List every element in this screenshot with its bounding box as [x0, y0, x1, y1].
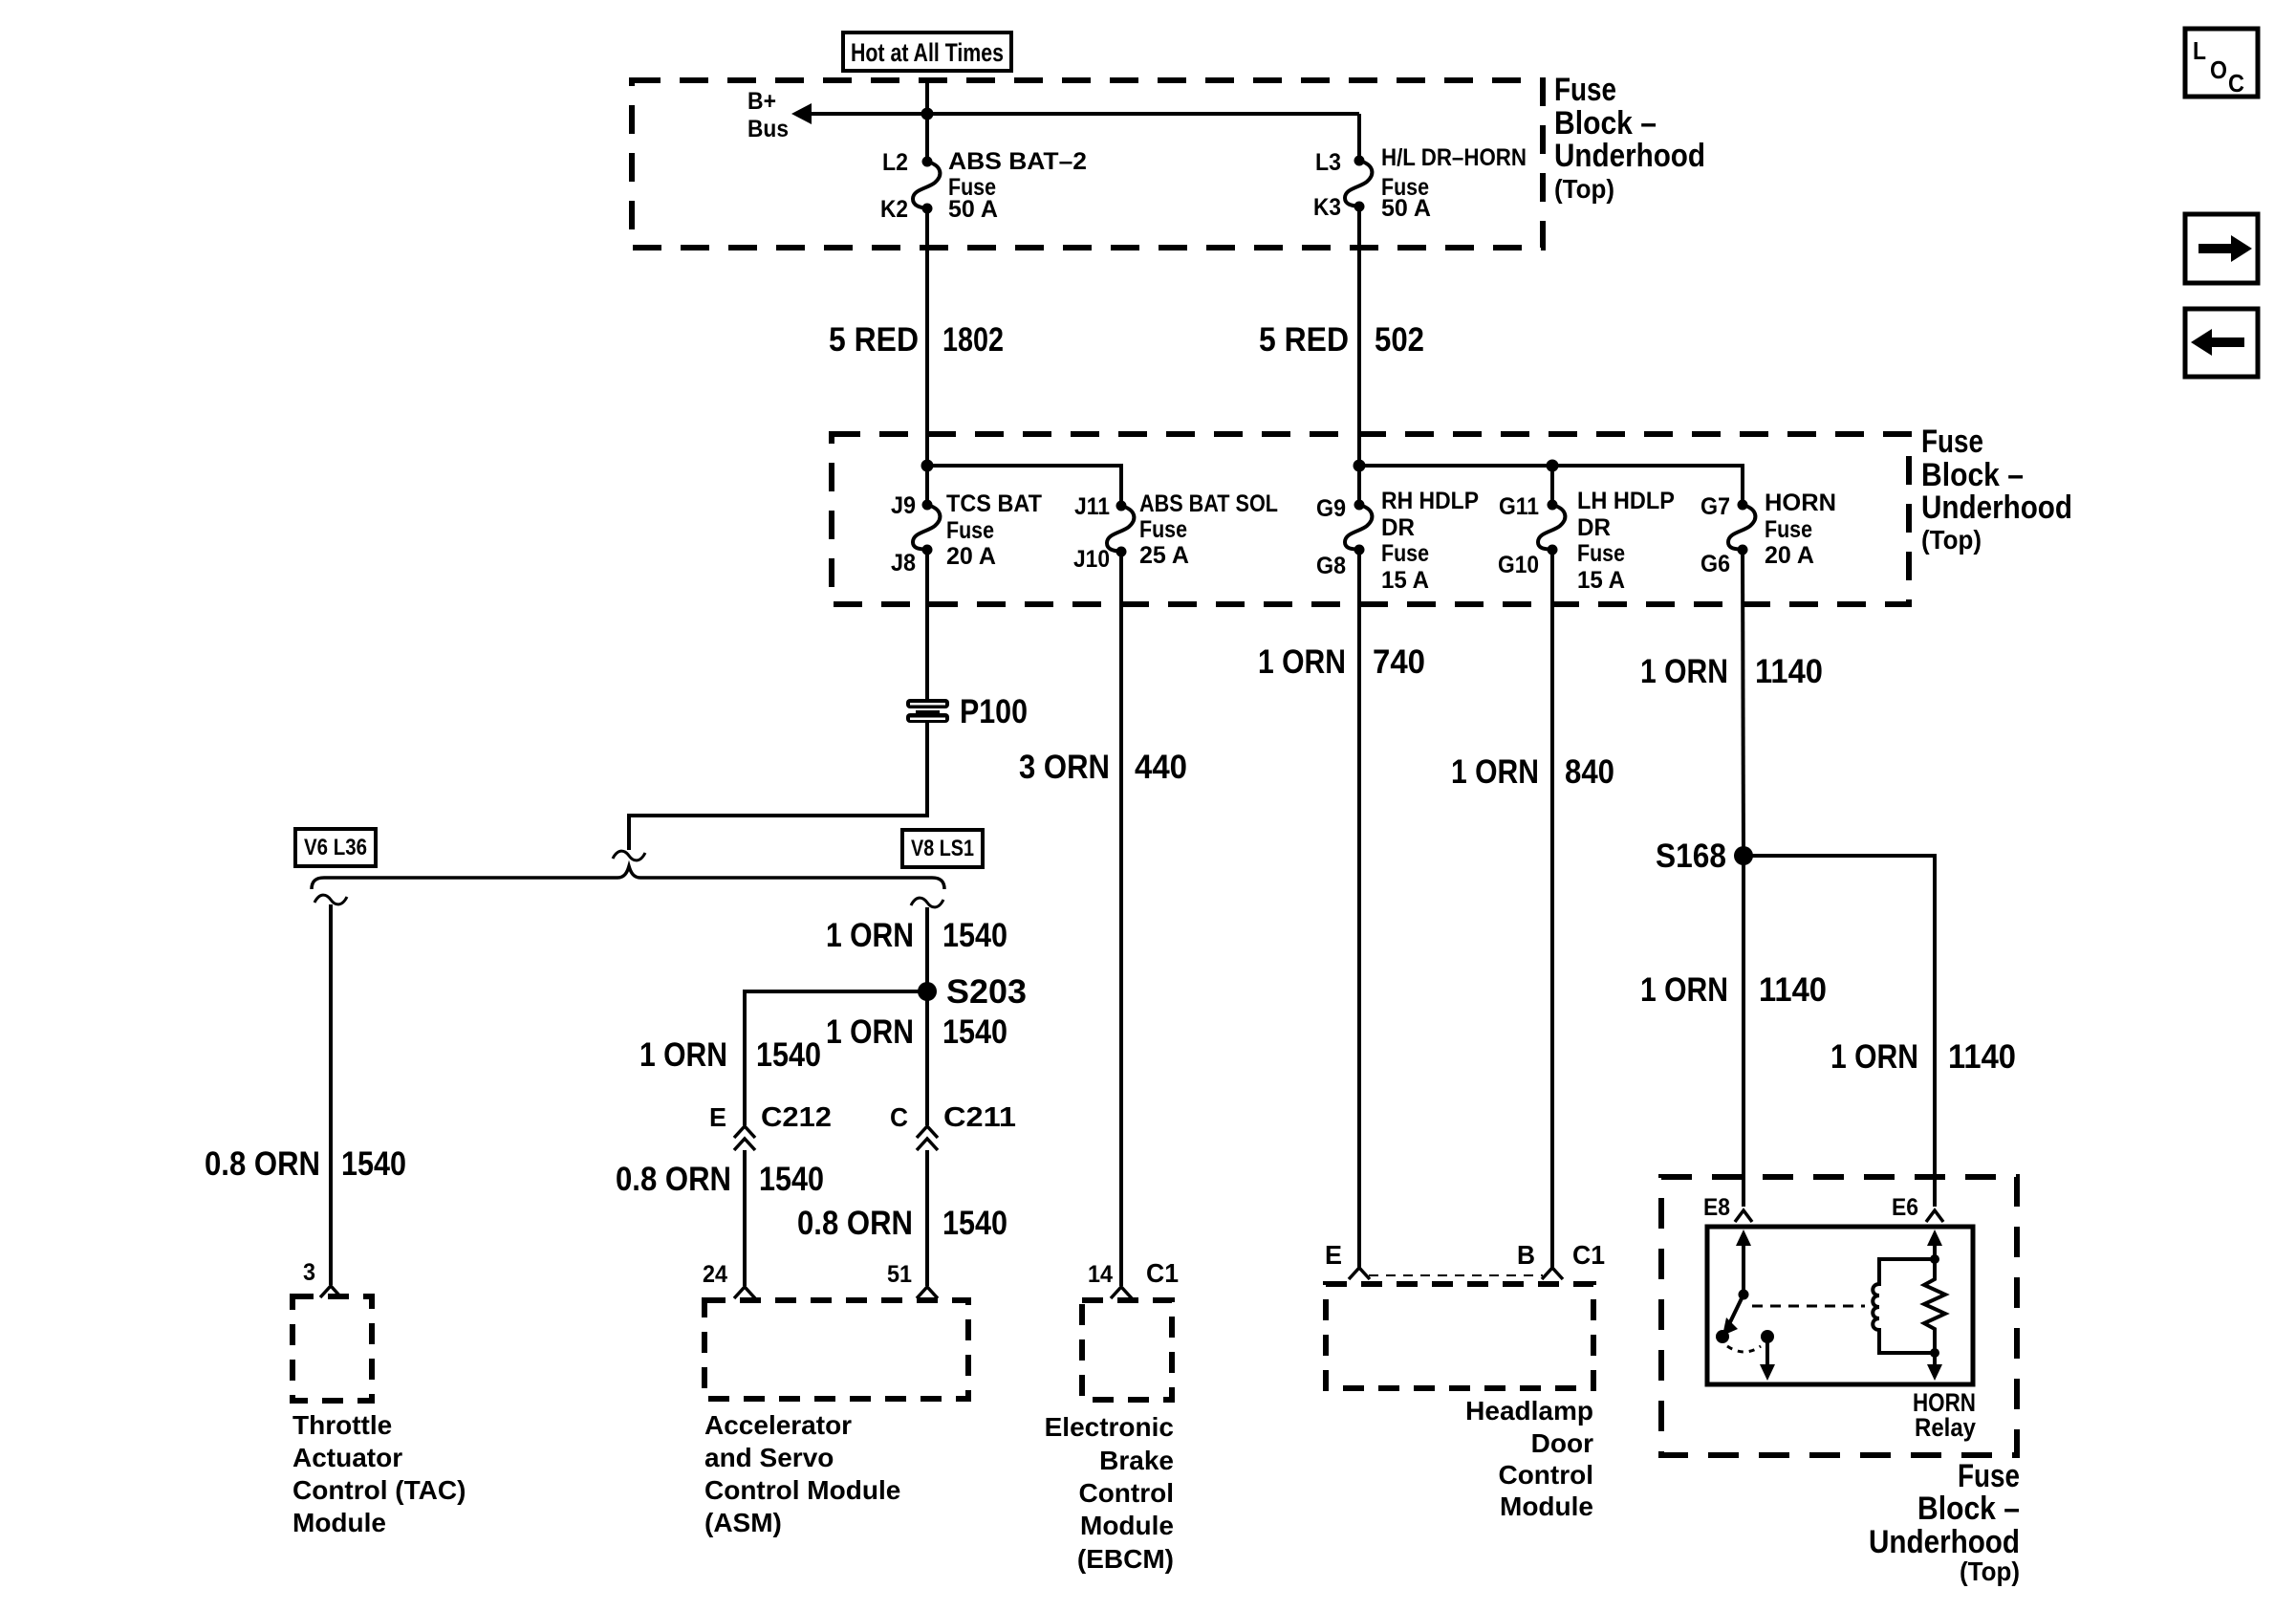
- svg-text:Module: Module: [292, 1508, 386, 1537]
- relay switch pivot: [1739, 1290, 1749, 1300]
- svg-text:24: 24: [703, 1261, 727, 1288]
- svg-text:Relay: Relay: [1915, 1413, 1976, 1442]
- svg-text:Headlamp: Headlamp: [1465, 1396, 1593, 1426]
- wire: C212 to ASM pin 24: [743, 1150, 747, 1286]
- relay contact left: [1716, 1330, 1729, 1343]
- svg-text:0.8 ORN: 0.8 ORN: [205, 1145, 320, 1183]
- svg-text:DR: DR: [1381, 514, 1415, 541]
- svg-text:1 ORN: 1 ORN: [826, 1013, 914, 1051]
- svg-text:Control: Control: [1078, 1478, 1174, 1508]
- fuse ABS BAT-2 50A (L2-K2): [913, 162, 940, 208]
- svg-text:1540: 1540: [341, 1145, 406, 1183]
- wire break at options stub: [613, 851, 645, 860]
- wire: C211 to ASM pin 51: [925, 1150, 929, 1286]
- svg-text:L: L: [2193, 36, 2206, 65]
- svg-text:Control (TAC): Control (TAC): [292, 1475, 466, 1505]
- svg-text:1140: 1140: [1755, 653, 1823, 690]
- svg-text:1 ORN: 1 ORN: [639, 1036, 727, 1074]
- fuse H/L DR-HORN 50A (L3-K3): [1345, 161, 1372, 207]
- svg-text:50 A: 50 A: [1381, 195, 1431, 222]
- svg-text:C212: C212: [761, 1102, 832, 1133]
- svg-text:51: 51: [887, 1261, 912, 1288]
- svg-text:Fuse: Fuse: [1921, 424, 1983, 460]
- svg-text:Block –: Block –: [1554, 105, 1657, 142]
- svg-text:1 ORN: 1 ORN: [826, 917, 914, 954]
- svg-text:Fuse: Fuse: [1577, 540, 1625, 567]
- fuse TCS BAT 20A (J9-J8): [913, 505, 940, 550]
- wire break V6 branch: [314, 895, 347, 904]
- svg-text:3: 3: [303, 1259, 315, 1286]
- svg-text:Throttle: Throttle: [292, 1410, 392, 1440]
- icon: LOC box: [2185, 29, 2258, 97]
- svg-text:E6: E6: [1892, 1194, 1918, 1221]
- svg-text:1140: 1140: [1759, 971, 1827, 1009]
- svg-text:Actuator: Actuator: [292, 1443, 402, 1472]
- svg-text:3 ORN: 3 ORN: [1019, 749, 1110, 786]
- svg-text:C1: C1: [1572, 1240, 1605, 1270]
- svg-text:Control Module: Control Module: [704, 1475, 900, 1505]
- svg-text:15 A: 15 A: [1381, 567, 1429, 594]
- svg-text:K3: K3: [1313, 194, 1341, 221]
- wire: S203 branch left to C212: [745, 991, 927, 1125]
- relay contact throw arc: [1727, 1346, 1761, 1352]
- svg-text:440: 440: [1135, 749, 1187, 786]
- node: splice S168: [1734, 846, 1753, 865]
- svg-text:(Top): (Top): [1554, 174, 1614, 204]
- fuse block underhood top - dashed box: [632, 80, 1543, 248]
- svg-text:G11: G11: [1499, 493, 1539, 520]
- svg-text:B+: B+: [747, 88, 776, 115]
- fuse block underhood bottom - dashed box: [1661, 1177, 2017, 1455]
- module: Electronic Brake Control Module (EBCM): [1082, 1300, 1172, 1400]
- svg-text:1140: 1140: [1948, 1038, 2016, 1076]
- module: Headlamp Door Control Module: [1326, 1284, 1593, 1388]
- svg-text:1 ORN: 1 ORN: [1830, 1038, 1918, 1076]
- node: junction at G11: [1547, 460, 1559, 472]
- svg-text:ABS BAT SOL: ABS BAT SOL: [1139, 490, 1278, 517]
- svg-text:1540: 1540: [759, 1161, 824, 1198]
- svg-text:J8: J8: [891, 550, 916, 577]
- svg-text:1802: 1802: [942, 321, 1004, 359]
- svg-text:25 A: 25 A: [1139, 542, 1189, 569]
- wire: branch to J11: [927, 466, 1121, 506]
- svg-text:G9: G9: [1316, 495, 1346, 522]
- svg-text:G8: G8: [1316, 553, 1346, 579]
- wire: J8 down to P100: [925, 550, 929, 701]
- svg-text:and Servo: and Servo: [704, 1443, 834, 1472]
- svg-text:S168: S168: [1656, 838, 1726, 875]
- svg-text:1 ORN: 1 ORN: [1640, 653, 1728, 690]
- svg-text:P100: P100: [960, 693, 1028, 730]
- relay coil: [1873, 1259, 1935, 1353]
- svg-text:C: C: [2228, 69, 2244, 98]
- relay resistor: [1924, 1259, 1945, 1353]
- svg-text:Fuse: Fuse: [1139, 516, 1187, 543]
- svg-text:L3: L3: [1315, 149, 1341, 176]
- fuse HORN 20A (G7-G6): [1728, 505, 1755, 550]
- svg-text:H/L DR–HORN: H/L DR–HORN: [1381, 144, 1527, 171]
- wire: V8 branch down to S203: [925, 907, 929, 991]
- wire: S203 down to C211: [925, 991, 929, 1125]
- svg-text:1 ORN: 1 ORN: [1258, 643, 1346, 681]
- wire: branch to G11: [1550, 466, 1554, 505]
- B+ arrowhead: [791, 103, 812, 124]
- fuse block underhood middle - dashed box: [832, 434, 1909, 604]
- svg-text:L2: L2: [882, 149, 908, 176]
- svg-text:C211: C211: [943, 1102, 1016, 1133]
- svg-text:1540: 1540: [942, 1013, 1007, 1051]
- svg-text:20 A: 20 A: [946, 543, 996, 570]
- wire break V8 branch: [911, 898, 943, 907]
- svg-text:5 RED: 5 RED: [829, 321, 919, 359]
- relay output arrow down: [1765, 1337, 1769, 1367]
- svg-text:1 ORN: 1 ORN: [1640, 971, 1728, 1009]
- wire: K2 to J9, circuit 1802: [925, 208, 929, 505]
- options bracket: [312, 866, 944, 889]
- node: splice S203: [918, 982, 937, 1001]
- wire: G8 down to headlamp module, circuit 740: [1357, 550, 1361, 1268]
- svg-text:J9: J9: [891, 492, 916, 519]
- svg-text:V8 LS1: V8 LS1: [911, 836, 974, 861]
- wire: S168 down to E8: [1742, 856, 1745, 1207]
- svg-text:0.8 ORN: 0.8 ORN: [616, 1161, 731, 1198]
- svg-text:E: E: [709, 1102, 726, 1132]
- svg-text:Brake: Brake: [1099, 1446, 1174, 1475]
- svg-text:Bus: Bus: [747, 116, 789, 142]
- connector P100 grommet: [906, 699, 949, 708]
- wire: branch to G7: [1359, 466, 1743, 505]
- svg-text:Block –: Block –: [1921, 457, 2024, 493]
- svg-text:C1: C1: [1146, 1258, 1179, 1288]
- wire: K3 to G9, circuit 502: [1357, 207, 1361, 505]
- svg-text:1540: 1540: [942, 1205, 1007, 1242]
- svg-text:1540: 1540: [942, 917, 1007, 954]
- svg-text:5 RED: 5 RED: [1259, 321, 1349, 359]
- fuse RH HDLP DR 15A (G9-G8): [1345, 505, 1372, 550]
- svg-text:Control: Control: [1498, 1460, 1593, 1490]
- wire: B+ bus: [809, 112, 1359, 116]
- svg-text:Underhood: Underhood: [1554, 138, 1705, 174]
- svg-text:Fuse: Fuse: [1554, 72, 1616, 108]
- wire: bus to L3: [1357, 114, 1361, 159]
- svg-text:K2: K2: [880, 196, 908, 223]
- icon: arrow right box: [2185, 214, 2258, 283]
- relay contact common: [1761, 1330, 1774, 1343]
- node: B+ junction: [921, 108, 934, 120]
- svg-text:Module: Module: [1080, 1511, 1174, 1540]
- connector C212 pin E: [734, 1126, 755, 1138]
- svg-text:Electronic: Electronic: [1045, 1412, 1174, 1442]
- svg-text:Fuse: Fuse: [946, 517, 994, 544]
- wire: S168 branch to E6: [1744, 856, 1935, 1207]
- svg-text:E8: E8: [1703, 1194, 1730, 1221]
- connector face dashed line: [1369, 1274, 1543, 1276]
- node: coil bottom junction: [1930, 1348, 1939, 1358]
- wire: P100 down, over to options split: [629, 721, 927, 850]
- svg-text:20 A: 20 A: [1765, 542, 1814, 569]
- svg-text:0.8 ORN: 0.8 ORN: [797, 1205, 913, 1242]
- svg-text:Block –: Block –: [1917, 1491, 2020, 1527]
- svg-text:(Top): (Top): [1960, 1557, 2020, 1586]
- svg-text:J10: J10: [1073, 546, 1110, 573]
- fuse LH HDLP DR 15A (G11-G10): [1538, 505, 1565, 550]
- node: coil top junction: [1930, 1254, 1939, 1264]
- svg-text:840: 840: [1565, 753, 1614, 791]
- wire: G10 down to headlamp module, circuit 840: [1550, 550, 1554, 1268]
- node: junction RH/LH/HORN branch: [1354, 460, 1366, 472]
- svg-text:15 A: 15 A: [1577, 567, 1625, 594]
- relay output to horn arrow: [1933, 1353, 1937, 1367]
- svg-text:Underhood: Underhood: [1869, 1524, 2020, 1560]
- svg-text:Fuse: Fuse: [1765, 516, 1812, 543]
- svg-text:E: E: [1325, 1240, 1342, 1270]
- wire: G6 down to S168, circuit 1140: [1743, 550, 1744, 856]
- svg-text:RH HDLP: RH HDLP: [1381, 488, 1479, 514]
- svg-text:C: C: [890, 1102, 908, 1132]
- svg-text:G7: G7: [1700, 493, 1730, 520]
- module: Accelerator and Servo Control Module (ASM): [704, 1300, 968, 1399]
- wire: J10 down to EBCM, circuit 440: [1119, 552, 1123, 1286]
- svg-text:14: 14: [1088, 1261, 1113, 1288]
- svg-text:Fuse: Fuse: [1958, 1458, 2020, 1494]
- svg-text:G10: G10: [1498, 552, 1539, 578]
- svg-text:B: B: [1517, 1240, 1535, 1270]
- wire: V6 branch down to TAC, circuit 1540: [329, 904, 333, 1285]
- module: Throttle Actuator Control (TAC): [292, 1296, 372, 1401]
- svg-text:Fuse: Fuse: [1381, 540, 1429, 567]
- svg-text:Door: Door: [1531, 1428, 1593, 1458]
- svg-text:1 ORN: 1 ORN: [1451, 753, 1539, 791]
- svg-text:(ASM): (ASM): [704, 1508, 782, 1537]
- relay actuation dashed link: [1752, 1305, 1865, 1308]
- relay switch arm: [1728, 1295, 1744, 1326]
- svg-text:J11: J11: [1074, 493, 1110, 520]
- connector C211 pin C: [917, 1126, 938, 1138]
- svg-text:740: 740: [1373, 643, 1425, 681]
- svg-text:50 A: 50 A: [948, 196, 998, 223]
- svg-text:DR: DR: [1577, 514, 1611, 541]
- svg-text:Accelerator: Accelerator: [704, 1410, 852, 1440]
- fuse ABS BAT SOL 25A (J11-J10): [1107, 506, 1134, 552]
- label box: V8 LS1: [902, 830, 983, 867]
- svg-text:O: O: [2210, 55, 2227, 84]
- horn relay housing: [1707, 1227, 1973, 1384]
- node: junction to ABS BAT SOL branch: [921, 460, 934, 472]
- label box: V6 L36: [295, 829, 376, 866]
- svg-text:502: 502: [1375, 321, 1424, 359]
- svg-text:Hot at All Times: Hot at All Times: [851, 38, 1004, 67]
- svg-text:(Top): (Top): [1921, 525, 1982, 555]
- node: Hot at All Times feed: [843, 33, 1011, 71]
- svg-text:S203: S203: [946, 973, 1027, 1011]
- svg-text:TCS BAT: TCS BAT: [946, 490, 1042, 517]
- svg-text:V6 L36: V6 L36: [304, 835, 367, 860]
- svg-text:LH HDLP: LH HDLP: [1577, 488, 1675, 514]
- svg-text:HORN: HORN: [1765, 490, 1836, 516]
- svg-text:(EBCM): (EBCM): [1077, 1544, 1174, 1574]
- relay terminal E8 arrow: [1736, 1230, 1751, 1246]
- svg-text:Module: Module: [1500, 1491, 1593, 1521]
- svg-text:ABS BAT–2: ABS BAT–2: [948, 148, 1087, 175]
- wire: hot feed into block: [925, 80, 929, 160]
- icon: arrow left box: [2185, 309, 2258, 377]
- relay terminal E6 arrow: [1927, 1230, 1942, 1246]
- svg-text:G6: G6: [1700, 551, 1730, 577]
- svg-text:Underhood: Underhood: [1921, 490, 2072, 526]
- svg-text:1540: 1540: [756, 1036, 821, 1074]
